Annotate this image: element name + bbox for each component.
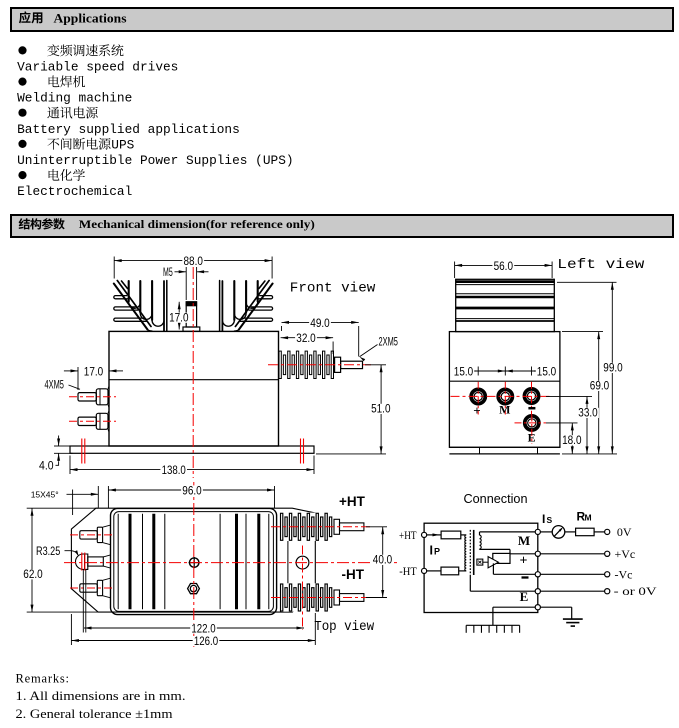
node - <box>535 572 540 577</box>
svg-text:+HT: +HT <box>339 494 366 509</box>
svg-text:I: I <box>430 544 433 558</box>
svg-text:I: I <box>542 512 545 526</box>
top view right hole <box>296 556 309 569</box>
compensation box <box>493 553 510 563</box>
section header: Mechanical dimension <box>10 214 674 238</box>
svg-text:15.0: 15.0 <box>454 366 473 378</box>
front view module body <box>109 331 279 446</box>
svg-text:88.0: 88.0 <box>184 256 203 268</box>
svg-text:-HT: -HT <box>342 567 365 582</box>
top view title <box>314 619 375 635</box>
connection title <box>464 492 528 506</box>
svg-text:15X45°: 15X45° <box>31 490 59 500</box>
node bottom <box>535 605 540 610</box>
svg-text:126.0: 126.0 <box>194 636 218 648</box>
left view red centerlines <box>451 382 552 444</box>
svg-text:4XM5: 4XM5 <box>45 379 64 391</box>
node M <box>535 529 540 534</box>
front view heatsink fins left cluster <box>114 281 167 332</box>
wire secondary to M node <box>480 532 538 535</box>
dim 18.0 <box>546 423 583 454</box>
svg-text:17.0: 17.0 <box>169 312 188 324</box>
svg-text:15.0: 15.0 <box>537 366 556 378</box>
svg-text:69.0: 69.0 <box>590 381 609 393</box>
svg-text:Connection: Connection <box>464 492 528 506</box>
dim 126.0 <box>71 613 315 648</box>
wire meter to RM <box>565 531 576 533</box>
label 4XM5 <box>45 379 81 391</box>
dim 40.0 <box>366 527 393 598</box>
svg-text:56.0: 56.0 <box>494 261 513 273</box>
svg-text:18.0: 18.0 <box>562 435 581 447</box>
op-amp triangle <box>488 557 498 568</box>
chassis ground comb <box>466 607 519 633</box>
dim 15X45 <box>31 486 99 515</box>
node labels M + - E <box>518 533 530 548</box>
svg-text:E: E <box>520 589 529 604</box>
dim 51.0 <box>316 365 392 454</box>
resistor RM <box>576 528 595 536</box>
dim 69.0 <box>562 332 610 454</box>
M5 stud on top <box>183 302 200 332</box>
top view HT labels <box>339 494 366 582</box>
dim 4.0 <box>39 436 73 473</box>
svg-text:40.0: 40.0 <box>373 555 392 567</box>
plate step line between bushings <box>287 541 289 584</box>
svg-text:49.0: 49.0 <box>310 318 329 330</box>
label RM <box>577 510 592 524</box>
top view left terminals <box>75 525 110 598</box>
resistor R1 <box>441 531 461 539</box>
svg-text:0V: 0V <box>617 525 632 539</box>
top view red centerlines <box>64 482 397 647</box>
top view center markers <box>189 557 200 568</box>
transformer secondary winding <box>480 535 482 549</box>
node E <box>535 589 540 594</box>
svg-text:Remarks:: Remarks: <box>16 672 70 686</box>
svg-text:96.0: 96.0 <box>182 485 201 497</box>
label R3.25 <box>36 546 79 558</box>
left view title <box>557 257 645 273</box>
module outline box <box>424 523 538 612</box>
label 0V <box>617 525 632 539</box>
wire secondary to compensation box <box>480 549 511 554</box>
svg-text:-HT: -HT <box>399 566 417 578</box>
label Is <box>542 512 553 526</box>
top view base plate octagon <box>71 508 315 612</box>
svg-text:Front view: Front view <box>290 281 376 297</box>
wire core to E node <box>470 575 538 591</box>
svg-text:1. All dimensions are in mm.: 1. All dimensions are in mm. <box>16 689 186 703</box>
label 2XM5 <box>360 337 398 362</box>
front view heatsink fins right cluster (mirror) <box>220 281 273 332</box>
dim M5 <box>163 267 209 300</box>
svg-text:P: P <box>434 547 440 557</box>
right threaded bushing (front view) <box>279 351 363 378</box>
svg-text:Left view: Left view <box>557 257 645 273</box>
transformer core <box>470 530 473 575</box>
svg-text:+Vc: +Vc <box>615 547 636 561</box>
svg-text:33.0: 33.0 <box>578 408 597 420</box>
transformer primary winding <box>465 535 466 571</box>
terminal +HT <box>399 530 427 542</box>
top view finned body <box>111 508 277 614</box>
svg-text:+: + <box>473 403 480 418</box>
earth ground <box>563 607 583 626</box>
dim 15.0 15.0 <box>453 366 558 378</box>
dim 33.0 <box>546 396 599 454</box>
top view right bushings <box>281 513 364 612</box>
wire -HT to R2 <box>427 570 441 572</box>
label -Vc <box>615 567 633 581</box>
dim 17.0 stud <box>168 302 190 330</box>
dim 62.0 <box>22 508 98 612</box>
dim 49.0 <box>282 318 359 357</box>
wire R2 to primary <box>459 570 467 572</box>
svg-text:+HT: +HT <box>399 530 417 542</box>
svg-text:E: E <box>528 431 536 445</box>
left terminals 4XM5 (front view) <box>78 386 109 432</box>
wire R1 to primary <box>461 534 466 536</box>
svg-text:M5: M5 <box>163 267 173 279</box>
terminal -HT <box>399 566 426 578</box>
dim 17.0 left <box>64 366 123 390</box>
front view title <box>290 281 376 297</box>
wire M node to Is meter <box>538 531 552 533</box>
bottom ground wire <box>493 606 572 608</box>
resistor R2 <box>441 567 459 575</box>
left view terminal rings + M - <box>471 389 539 430</box>
CJK 结构参数 <box>19 218 65 229</box>
svg-text:R3.25: R3.25 <box>36 546 60 558</box>
wire RM to 0V <box>594 529 610 534</box>
current meter Is <box>552 526 565 539</box>
wire - node to -Vc <box>540 572 609 577</box>
top view fins <box>118 514 269 609</box>
svg-text:-Vc: -Vc <box>615 567 633 581</box>
dim 96.0 <box>108 485 274 508</box>
label - or 0V <box>614 584 657 598</box>
dim 99.0 <box>557 282 624 454</box>
red centerlines front view <box>69 267 371 478</box>
svg-text:32.0: 32.0 <box>296 333 315 345</box>
CJK 应用 <box>19 11 43 23</box>
svg-text:122.0: 122.0 <box>191 623 215 635</box>
svg-text:17.0: 17.0 <box>84 366 103 378</box>
svg-text:51.0: 51.0 <box>371 404 390 416</box>
dim 138.0 <box>70 456 314 477</box>
svg-text:- or 0V: - or 0V <box>614 584 657 598</box>
svg-text:M: M <box>499 403 510 417</box>
applications bullet list <box>0 36 679 206</box>
svg-text:M: M <box>518 533 530 548</box>
left view terminal labels <box>473 403 535 445</box>
left view heatsink stack <box>456 279 555 331</box>
svg-text:138.0: 138.0 <box>162 465 186 477</box>
svg-text:S: S <box>547 515 553 525</box>
svg-text:+: + <box>520 554 528 569</box>
wire box to + node <box>510 553 538 555</box>
svg-text:99.0: 99.0 <box>603 363 622 375</box>
front view base plate <box>70 446 314 453</box>
wire box bottom to - node <box>493 563 537 574</box>
dim 56.0 <box>455 261 552 278</box>
left view body <box>449 332 560 454</box>
section header: Applications <box>10 7 674 32</box>
hall element <box>477 559 488 565</box>
svg-text:2XM5: 2XM5 <box>379 337 398 349</box>
node + <box>535 551 540 556</box>
svg-text:Top view: Top view <box>314 619 375 635</box>
remarks <box>16 672 186 722</box>
dim 32.0 <box>281 333 334 354</box>
svg-text:2. General tolerance ±1mm: 2. General tolerance ±1mm <box>16 707 173 721</box>
svg-text:M: M <box>585 513 592 523</box>
svg-text:62.0: 62.0 <box>23 569 42 581</box>
wire +HT to R1 with arrow <box>427 533 441 536</box>
dim 88.0 <box>114 256 272 279</box>
svg-text:4.0: 4.0 <box>39 461 54 473</box>
wire + node to +Vc <box>540 551 609 556</box>
wire E node to - or 0V <box>540 589 609 594</box>
label +Vc <box>615 547 636 561</box>
dim 122.0 <box>83 570 304 635</box>
label IP <box>430 544 441 558</box>
